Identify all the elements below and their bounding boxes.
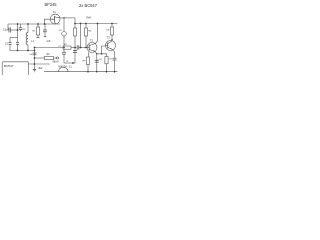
wire gate lead bbox=[45, 19, 51, 24]
wire y37.5 link bbox=[10, 37, 18, 39]
svg-text:R2: R2 bbox=[64, 44, 68, 46]
svg-text:68mV: 68mV bbox=[53, 61, 60, 64]
svg-text:C2: C2 bbox=[23, 29, 27, 31]
wire signal y47.5 bbox=[35, 47, 64, 49]
svg-text:5V6: 5V6 bbox=[86, 15, 91, 19]
wire vert x17.5 bbox=[17, 24, 19, 42]
capacitor C11 bbox=[113, 52, 117, 72]
ground bbox=[33, 64, 36, 72]
transistor T3 BC547 bbox=[105, 40, 115, 52]
wire collector T2 up bbox=[97, 24, 99, 42]
svg-text:R3: R3 bbox=[47, 54, 51, 56]
svg-text:C1: C1 bbox=[3, 29, 7, 31]
svg-text:1n5: 1n5 bbox=[46, 40, 51, 43]
wire antenna stub y30 bbox=[6, 29, 10, 31]
svg-text:T1: T1 bbox=[53, 10, 57, 14]
resistor R2b series bbox=[63, 46, 76, 49]
node rail dots bbox=[17, 23, 116, 73]
wire bottom link y50.5 bbox=[10, 50, 35, 52]
resistor R7 collector load bbox=[110, 24, 113, 40]
svg-text:1k: 1k bbox=[66, 61, 69, 63]
wire left ground rail y64 bbox=[28, 63, 50, 65]
svg-text:R1: R1 bbox=[33, 30, 37, 32]
svg-text:L1: L1 bbox=[31, 41, 34, 43]
capacitor C5 on x75 bbox=[73, 51, 77, 53]
transistor T2 BC547 bbox=[87, 41, 98, 54]
wire tank drop x34.5 bbox=[34, 48, 36, 65]
svg-text:C8: C8 bbox=[99, 59, 103, 61]
wire drain y17.9 bbox=[60, 17, 75, 19]
wire right rail y23.5 bbox=[75, 23, 118, 25]
wire base T2 bbox=[79, 47, 87, 49]
svg-text:C3: C3 bbox=[5, 43, 9, 45]
svg-text:T3: T3 bbox=[107, 36, 111, 40]
capacitor C4 bbox=[16, 42, 19, 50]
svg-text:C9: C9 bbox=[109, 58, 113, 60]
wire bias x80.5 bbox=[80, 24, 82, 48]
svg-text:BC547: BC547 bbox=[4, 64, 14, 68]
svg-text:D1: D1 bbox=[59, 30, 63, 32]
svg-text:2x BC547: 2x BC547 bbox=[79, 3, 98, 8]
wire left rail corner down bbox=[7, 24, 9, 30]
svg-text:R4: R4 bbox=[88, 31, 92, 33]
node emitter T2 bbox=[96, 53, 98, 55]
wire left rail y24 bbox=[8, 23, 60, 25]
svg-text:2k2: 2k2 bbox=[38, 66, 43, 70]
svg-text:10k: 10k bbox=[106, 29, 110, 31]
wire bottom rail y71.7 bbox=[44, 71, 118, 73]
wire vert x10 bbox=[9, 38, 11, 43]
resistor R2 bbox=[73, 18, 76, 63]
capacitor C1 bbox=[9, 28, 18, 33]
svg-text:BF245: BF245 bbox=[45, 2, 58, 7]
svg-text:T2: T2 bbox=[90, 38, 94, 42]
node drain-tap x64 bbox=[63, 17, 65, 19]
capacitor C10 bbox=[95, 54, 99, 72]
inductor L1 bbox=[26, 24, 28, 51]
capacitor C6 bbox=[43, 24, 47, 37]
capacitor C2 bbox=[19, 24, 23, 31]
capacitor C3 bbox=[9, 42, 12, 50]
resistor R1 bbox=[36, 24, 39, 38]
earpiece arc bbox=[59, 67, 69, 71]
capacitor C8 coupling bbox=[77, 45, 79, 50]
wire coupling to T3 base bbox=[97, 46, 105, 54]
capacitor C7b bbox=[62, 49, 66, 63]
svg-text:R5: R5 bbox=[83, 61, 87, 63]
resistor R5 bbox=[86, 52, 89, 71]
pinout box BC547 bbox=[2, 62, 28, 76]
resistor R3 bbox=[35, 56, 59, 59]
resistor R6 emitter bias bbox=[102, 54, 109, 72]
resistor R4 bbox=[84, 24, 87, 48]
transistor T1 BF245 bbox=[50, 14, 60, 24]
svg-text:C4: C4 bbox=[29, 54, 33, 56]
wire output arrow y63 bbox=[64, 62, 75, 64]
capacitor C4b on x34.5 bbox=[33, 53, 37, 55]
diode D1 chain bbox=[62, 18, 67, 46]
